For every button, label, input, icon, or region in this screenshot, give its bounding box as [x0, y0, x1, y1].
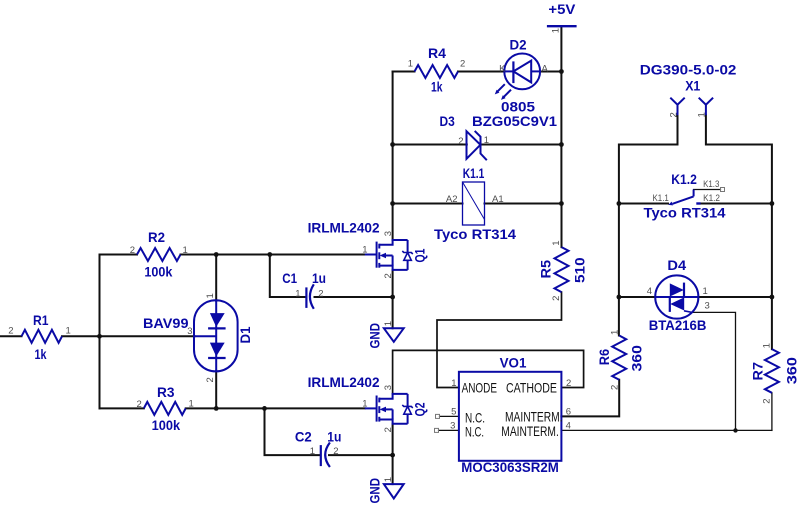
svg-text:2: 2: [610, 385, 621, 390]
svg-text:100k: 100k: [152, 417, 181, 433]
svg-text:BAV99: BAV99: [143, 315, 189, 331]
svg-text:1: 1: [551, 28, 562, 33]
wire VO1 pin3 stub: [439, 429, 459, 431]
svg-text:VO1: VO1: [500, 354, 527, 370]
wire right rail K1.2 row to R7: [771, 204, 773, 350]
node junction D4 left: [617, 295, 622, 300]
svg-text:D1: D1: [237, 326, 253, 343]
resistor R3: [137, 384, 194, 433]
wire D4 gate down: [692, 312, 736, 430]
wire VO1 pin4 row: [561, 429, 772, 431]
svg-text:1: 1: [66, 326, 71, 337]
resistor R5: [538, 241, 588, 301]
svg-text:C2: C2: [295, 429, 312, 445]
capacitor C1: [282, 270, 326, 309]
transistor Q2 IRLML2402: [308, 374, 428, 432]
LED D2: [495, 37, 549, 115]
svg-text:R2: R2: [148, 229, 165, 245]
svg-text:2: 2: [460, 58, 465, 69]
wire VO1 cathode to Q2 drain: [393, 350, 584, 394]
svg-text:K: K: [499, 63, 506, 74]
wire D3 row to K1.1 row vertical: [392, 145, 394, 204]
wire left vertical bus R2-R1-R3: [99, 255, 101, 409]
wire R3 left lead: [100, 407, 144, 409]
svg-text:BZG05C9V1: BZG05C9V1: [472, 113, 557, 129]
svg-text:D4: D4: [667, 257, 686, 273]
node junction Q2 source / C2: [390, 453, 395, 458]
wire D1 top vertical: [215, 255, 217, 301]
svg-text:4: 4: [566, 421, 571, 432]
wire K1.2 contact right: [701, 203, 772, 205]
ground GND1: [366, 321, 403, 348]
node junction D3 left: [390, 142, 395, 147]
relay contact K1.2: [644, 171, 726, 221]
node junction K1.1 left / Q1 drain: [390, 201, 395, 206]
svg-text:K1.2: K1.2: [703, 193, 720, 204]
svg-text:3: 3: [705, 301, 710, 312]
wire R1 to node A (junction) to D1 tap: [62, 335, 195, 337]
node junction R2/D1 top: [214, 252, 219, 257]
wire C2 right plate to Q2 source junction: [329, 454, 393, 456]
svg-text:K1.1: K1.1: [463, 165, 485, 181]
wire R2 left lead: [100, 254, 138, 256]
triac D4: [647, 257, 710, 333]
svg-text:2: 2: [130, 245, 135, 256]
svg-text:K1.3: K1.3: [703, 179, 719, 190]
wire R7 bottom lead: [771, 393, 773, 431]
svg-text:3: 3: [383, 385, 394, 390]
node junction D4 right: [770, 295, 775, 300]
transistor Q1 IRLML2402: [308, 219, 428, 278]
optocoupler VO1 MOC3063SR2M: [435, 354, 572, 475]
wire D2 anode to +5V rail: [540, 71, 561, 73]
wire Q1 source to GND1: [392, 270, 394, 328]
relay coil K1.1: [434, 165, 516, 242]
svg-text:R1: R1: [33, 312, 49, 328]
svg-text:D2: D2: [510, 37, 527, 53]
svg-text:3: 3: [450, 421, 455, 432]
wire C1 right plate to Q1 source junction: [315, 296, 393, 298]
wire D4 right: [698, 296, 772, 298]
svg-text:2: 2: [205, 377, 216, 382]
svg-text:2: 2: [566, 378, 571, 389]
svg-text:510: 510: [572, 257, 588, 283]
svg-text:BTA216B: BTA216B: [649, 317, 707, 333]
svg-text:1: 1: [183, 245, 188, 256]
svg-text:1k: 1k: [35, 346, 47, 362]
svg-text:R7: R7: [750, 362, 766, 381]
svg-text:MOC3063SR2M: MOC3063SR2M: [461, 459, 559, 475]
node junction R3/D1 bottom: [214, 406, 219, 411]
wire R5 top lead: [561, 204, 563, 248]
svg-text:R5: R5: [538, 260, 554, 279]
svg-text:1: 1: [189, 399, 194, 410]
svg-text:R4: R4: [428, 45, 446, 61]
svg-text:1: 1: [761, 343, 772, 348]
wire left rail K1.2 row to R6: [618, 204, 620, 336]
wire C2 branch down and right: [265, 408, 321, 455]
node junction D4 gate / pin4 row: [733, 428, 737, 432]
svg-text:GND: GND: [366, 478, 382, 504]
svg-text:R3: R3: [157, 384, 175, 400]
dual diode D1 BAV99: [143, 293, 253, 382]
wire K1.1 coil left: [393, 203, 463, 205]
node junction K1.1 right / R5: [559, 201, 564, 206]
svg-text:2: 2: [668, 112, 679, 117]
svg-text:2: 2: [761, 398, 772, 403]
svg-text:1: 1: [408, 58, 413, 69]
svg-text:Tyco RT314: Tyco RT314: [434, 226, 516, 242]
wire R1 left lead: [0, 335, 22, 337]
svg-text:C1: C1: [282, 270, 297, 286]
node junction D3 right: [559, 142, 564, 147]
svg-text:360: 360: [629, 345, 645, 372]
svg-text:1: 1: [362, 245, 367, 256]
svg-text:MAINTERM.: MAINTERM.: [505, 408, 563, 424]
svg-text:Tyco RT314: Tyco RT314: [644, 205, 726, 221]
svg-text:2: 2: [333, 446, 338, 457]
svg-text:100k: 100k: [144, 264, 172, 280]
svg-text:1: 1: [484, 135, 489, 146]
svg-text:Q2: Q2: [412, 402, 428, 416]
wire D4 left: [619, 296, 655, 298]
svg-text:1: 1: [451, 378, 456, 389]
node junction C2 branch: [262, 406, 267, 411]
svg-text:5: 5: [451, 407, 456, 418]
svg-text:6: 6: [566, 407, 571, 418]
wire Q2 source to GND2: [392, 424, 394, 484]
wire K1.2 contact left: [619, 203, 668, 205]
svg-text:1: 1: [703, 286, 708, 297]
capacitor C2: [295, 429, 342, 468]
svg-text:1: 1: [383, 477, 394, 482]
svg-text:1: 1: [362, 398, 367, 409]
svg-text:1: 1: [310, 446, 315, 457]
node junction Q1 source / C1: [390, 295, 395, 300]
svg-text:IRLML2402: IRLML2402: [308, 219, 380, 235]
wire X1 pin2 down-left vertical: [619, 115, 678, 203]
wire K1.3 stub: [694, 189, 721, 191]
svg-text:1: 1: [383, 321, 394, 326]
svg-text:+5V: +5V: [548, 1, 576, 17]
node junction K1.2 left: [617, 201, 622, 206]
wire VO1 pin5 stub: [440, 415, 459, 417]
resistor R2: [130, 229, 188, 280]
svg-text:IRLML2402: IRLML2402: [308, 374, 380, 390]
node junction D2 / +5V: [559, 69, 564, 74]
node junction K1.2 right: [770, 201, 775, 206]
svg-text:A1: A1: [492, 194, 504, 205]
resistor R6: [596, 330, 645, 390]
power +5V: [547, 1, 577, 33]
wire R4 to D2 cathode: [458, 71, 504, 73]
svg-text:2: 2: [551, 296, 562, 301]
resistor R7: [750, 343, 800, 404]
wire R6 bottom to VO1 pin6: [561, 380, 619, 417]
wire D3 left: [393, 144, 467, 146]
wire X1 pin1 down-right vertical: [706, 115, 772, 203]
resistor R4: [408, 45, 466, 95]
svg-text:A: A: [542, 63, 549, 74]
svg-text:2: 2: [137, 399, 142, 410]
ground GND2: [366, 477, 403, 504]
svg-text:1: 1: [551, 241, 562, 246]
svg-text:2: 2: [383, 273, 394, 278]
svg-text:4: 4: [647, 286, 652, 297]
wire +5V vertical rail: [560, 27, 562, 204]
wire D1 bottom vertical: [215, 371, 217, 409]
wire R4 row to D3 row vertical: [392, 72, 394, 145]
svg-text:GND: GND: [366, 323, 382, 349]
svg-text:DG390-5.0-02: DG390-5.0-02: [640, 61, 737, 77]
resistor R1: [8, 312, 71, 362]
svg-text:A2: A2: [446, 194, 458, 205]
svg-text:X1: X1: [685, 78, 700, 94]
svg-text:R6: R6: [596, 349, 612, 365]
svg-text:2: 2: [383, 427, 394, 432]
svg-text:1: 1: [295, 288, 300, 299]
svg-text:3: 3: [187, 326, 192, 337]
svg-text:1: 1: [610, 330, 621, 335]
svg-text:K1.2: K1.2: [671, 171, 697, 187]
svg-text:D3: D3: [440, 113, 455, 129]
node junction C1 branch: [267, 252, 272, 257]
svg-text:3: 3: [383, 231, 394, 236]
svg-text:N.C.: N.C.: [465, 423, 484, 439]
svg-text:K1.1: K1.1: [653, 193, 669, 204]
svg-text:2: 2: [458, 136, 463, 147]
svg-text:MAINTERM.: MAINTERM.: [501, 423, 559, 439]
svg-text:1u: 1u: [312, 270, 326, 286]
svg-text:1k: 1k: [431, 79, 443, 95]
svg-text:CATHODE: CATHODE: [506, 380, 557, 396]
connector X1: [640, 61, 737, 117]
svg-text:1: 1: [205, 293, 216, 298]
svg-text:1: 1: [697, 112, 708, 117]
wire R3 to Q2 gate row: [186, 407, 365, 409]
wire R2 to Q1 gate row: [181, 254, 365, 256]
wire K1.1 row to Q1 drain: [392, 204, 394, 241]
svg-text:2: 2: [318, 288, 323, 299]
zener diode D3: [440, 113, 558, 160]
wire R5 bottom to VO1 anode: [437, 292, 562, 387]
svg-text:Q1: Q1: [412, 248, 428, 262]
svg-text:ANODE: ANODE: [462, 380, 497, 396]
svg-text:2: 2: [8, 326, 13, 337]
svg-text:1u: 1u: [327, 429, 341, 445]
wire D3 right: [480, 144, 561, 146]
wire K1.1 coil right: [485, 203, 562, 205]
svg-text:0805: 0805: [501, 99, 535, 115]
svg-text:360: 360: [784, 357, 800, 384]
wire R4 left lead: [393, 71, 415, 73]
wire C1 branch down and right: [270, 255, 306, 298]
node junction R1/R2/R3: [97, 334, 102, 339]
